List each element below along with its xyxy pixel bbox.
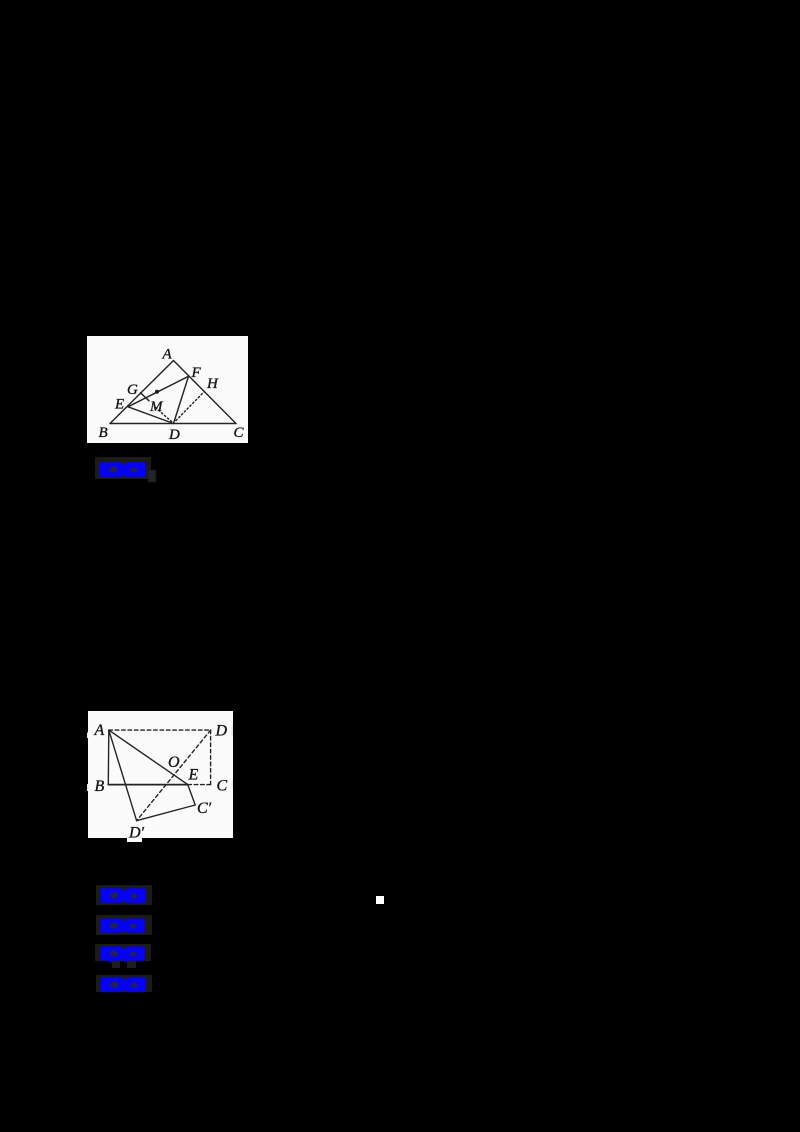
svg-text:E: E — [114, 397, 124, 413]
svg-text:H: H — [206, 376, 219, 392]
svg-text:C: C — [217, 778, 228, 795]
faint residue marks — [112, 961, 120, 968]
svg-text:A: A — [162, 346, 173, 362]
answer tag 1 — [95, 457, 151, 479]
answer tag 5 — [96, 975, 152, 992]
svg-text:C′: C′ — [197, 800, 212, 817]
segment G tick — [141, 393, 150, 401]
triangle side AB — [110, 361, 174, 424]
dotted GD — [156, 408, 173, 423]
svg-text:A: A — [94, 722, 105, 739]
white square glyph — [376, 896, 384, 904]
segment C'D' — [137, 805, 196, 821]
side BE — [108, 784, 188, 786]
answer tag 2 — [96, 885, 152, 905]
answer tag 3 — [96, 915, 152, 935]
svg-text:D: D — [215, 722, 228, 739]
dashed DD' — [137, 730, 211, 821]
svg-text:E: E — [188, 767, 199, 784]
segment EF — [128, 376, 189, 407]
svg-text:D: D — [168, 427, 180, 443]
triangle side AC — [174, 361, 237, 424]
triangle side BC — [110, 423, 236, 425]
svg-text:B: B — [95, 778, 105, 795]
faint gray tail after tag 1 — [148, 470, 156, 482]
svg-text:D′: D′ — [128, 824, 145, 838]
svg-text:C: C — [234, 425, 245, 441]
figure 2: rectangle ABCD fold (white box) — [87, 710, 233, 838]
dashed AD — [109, 729, 211, 731]
dashed DC — [210, 730, 212, 785]
white tab under figure 2 — [127, 838, 142, 842]
segment AD' — [109, 730, 137, 821]
svg-text:G: G — [127, 382, 138, 398]
segment AE — [109, 730, 188, 785]
side AB — [107, 730, 110, 785]
point M dot — [155, 390, 159, 394]
answer tag 4 — [95, 944, 151, 961]
segment FD — [174, 376, 189, 423]
dashed EC — [188, 784, 211, 786]
svg-text:M: M — [149, 399, 164, 415]
figure 1: triangle ABC with cevians (white box) — [87, 336, 248, 443]
svg-text:F: F — [191, 365, 202, 381]
segment EC' — [188, 785, 195, 805]
svg-text:B: B — [99, 425, 108, 441]
dotted DH — [176, 392, 204, 421]
segment ED — [128, 407, 174, 424]
svg-text:O: O — [168, 754, 180, 771]
